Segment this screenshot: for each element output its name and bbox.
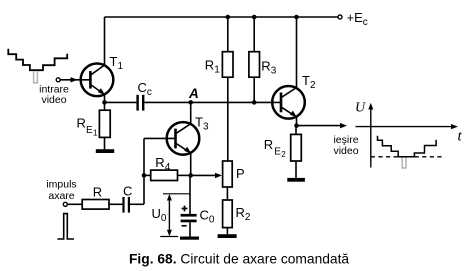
arrow output	[340, 123, 347, 128]
output graph U axis	[370, 105, 372, 168]
junction R1 on rail	[226, 15, 231, 20]
svg-text:Fig. 68. Circuit de axare coma: Fig. 68. Circuit de axare comandată	[129, 251, 349, 266]
wire T2 collector riser	[296, 17, 298, 88]
resistor R2	[223, 200, 233, 234]
output video waveform (staircase)	[378, 136, 437, 157]
U0 top reference line	[163, 193, 190, 195]
svg-text:impuls: impuls	[46, 178, 76, 190]
junction T3 emitter node	[188, 173, 193, 178]
capacitor C	[122, 197, 130, 213]
ground under R2	[218, 234, 237, 238]
+Ec supply terminal	[338, 15, 342, 19]
wire output	[297, 125, 342, 127]
wire Cc to node A to T2 base	[144, 101, 281, 103]
capacitor Cc	[136, 95, 144, 111]
junction R3 bottom on A wire	[252, 100, 257, 105]
wire T1 collector riser	[104, 17, 106, 65]
minus sign of C0	[182, 225, 187, 227]
svg-text:video: video	[333, 145, 358, 157]
wire T2 emitter drop	[296, 117, 298, 126]
junction R4 left	[142, 173, 147, 178]
U0 measurement arrow (double headed)	[167, 194, 172, 236]
wire input to T1 base	[60, 79, 90, 81]
resistor R3	[249, 17, 260, 102]
svg-text:U: U	[355, 101, 366, 116]
resistor RE2	[291, 126, 302, 178]
transistor T3	[167, 122, 200, 155]
resistor RE1	[99, 102, 110, 149]
junction R3 on rail	[252, 15, 257, 20]
wire P to R2	[226, 187, 228, 200]
wire T3 base	[144, 137, 176, 139]
wire top supply rail	[105, 16, 341, 18]
wire T1 emitter drop	[104, 95, 106, 103]
wire C0 column	[189, 175, 191, 214]
resistor R	[82, 200, 109, 210]
arrow to P	[215, 173, 222, 178]
dashed clamp level line	[371, 156, 398, 158]
svg-text:R: R	[264, 137, 273, 152]
transistor T2	[272, 86, 305, 119]
input video waveform (staircase)	[8, 49, 67, 70]
ground under RE2	[287, 178, 305, 182]
transistor T1	[81, 64, 114, 97]
svg-text:R: R	[77, 116, 86, 131]
svg-text:C: C	[123, 184, 132, 199]
wire emitter node to Cc	[105, 101, 137, 103]
wire left column (base to pulse input)	[143, 138, 145, 204]
svg-text:ieşire: ieşire	[333, 134, 358, 146]
U0 bottom reference line	[160, 236, 178, 238]
wire terminal to R	[67, 203, 82, 205]
potentiometer P	[223, 161, 233, 187]
junction T2 emitter node	[294, 123, 299, 128]
svg-text:P: P	[236, 166, 245, 181]
svg-text:axare: axare	[48, 190, 74, 202]
svg-text:1: 1	[93, 129, 98, 138]
wire R to C	[109, 203, 122, 205]
output graph t axis	[356, 126, 456, 128]
arrow on input wire	[71, 77, 78, 82]
ground under C0	[180, 237, 199, 240]
wire C to left column	[130, 203, 144, 205]
svg-text:video: video	[41, 94, 66, 106]
wire T3 emitter drop	[190, 153, 192, 175]
svg-text:2: 2	[281, 150, 286, 159]
svg-text:E: E	[86, 125, 93, 136]
junction T1 emitter node	[102, 100, 107, 105]
input terminal (open circle)	[56, 78, 60, 82]
pulse input terminal	[63, 202, 67, 206]
input waveform sync pulse (gray)	[34, 71, 38, 83]
svg-text:A: A	[188, 86, 199, 101]
pulse waveform symbol	[57, 214, 74, 239]
capacitor C0 (polarized)	[181, 214, 197, 237]
wire wiper arrow to P	[191, 174, 217, 176]
junction T2 collector on rail	[294, 15, 299, 20]
wire T3 collector to node A	[190, 102, 192, 123]
resistor R1	[222, 17, 233, 161]
node A junction dot	[188, 100, 193, 105]
svg-text:R: R	[93, 184, 102, 199]
arrow U axis	[368, 103, 373, 110]
arrow t axis	[451, 124, 458, 129]
output waveform sync pulse (gray)	[402, 158, 406, 169]
resistor R4	[144, 170, 191, 180]
ground under RE1	[96, 149, 114, 153]
plus sign of C0	[182, 206, 188, 212]
